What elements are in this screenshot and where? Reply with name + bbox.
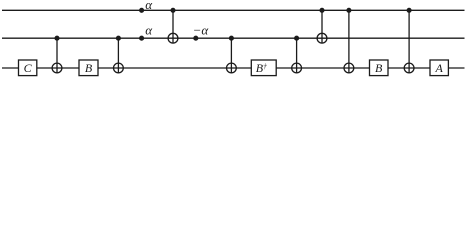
svg-text:α: α	[145, 23, 153, 38]
svg-text:B: B	[85, 61, 93, 75]
svg-text:−α: −α	[193, 22, 210, 37]
svg-text:A: A	[435, 61, 444, 75]
svg-text:C: C	[24, 61, 33, 75]
svg-text:α: α	[145, 0, 153, 12]
svg-text:B: B	[375, 61, 383, 75]
